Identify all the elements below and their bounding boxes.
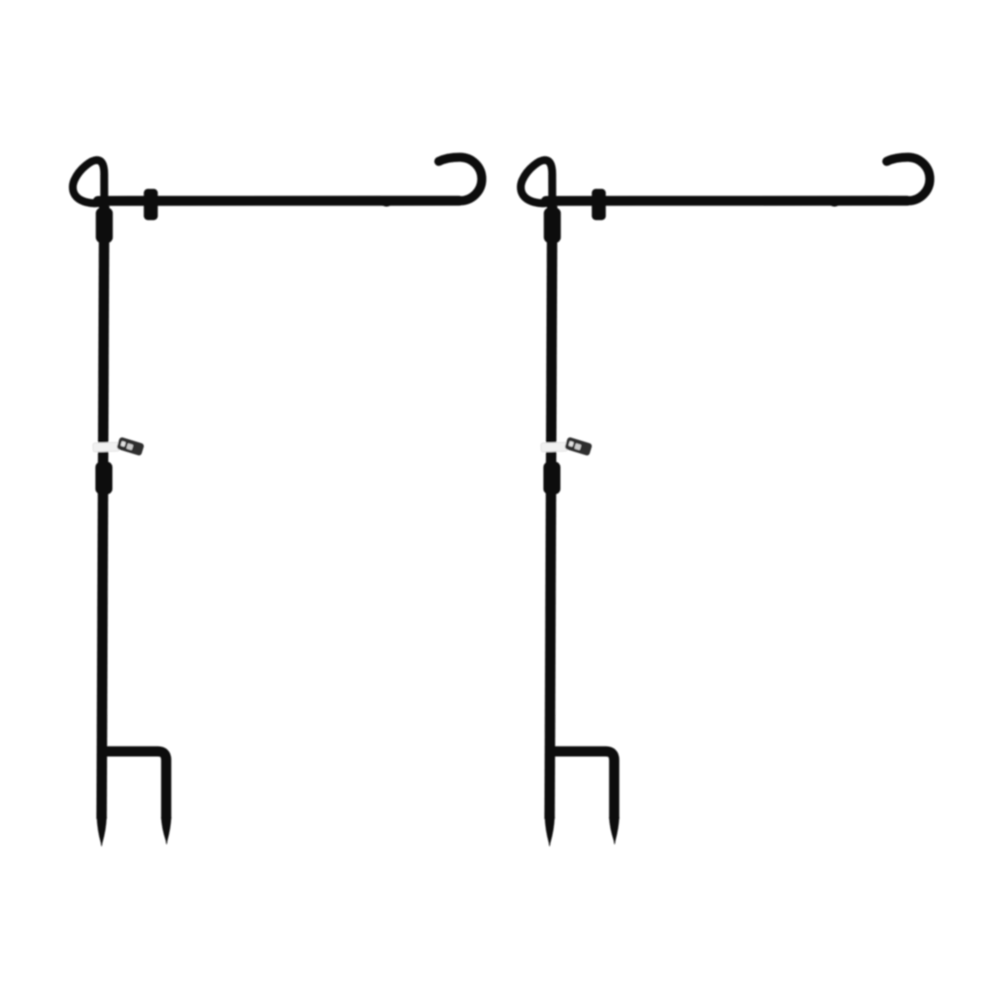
flag stand 1 (left) <box>73 157 482 846</box>
flag stand 2 (right) <box>521 157 930 846</box>
